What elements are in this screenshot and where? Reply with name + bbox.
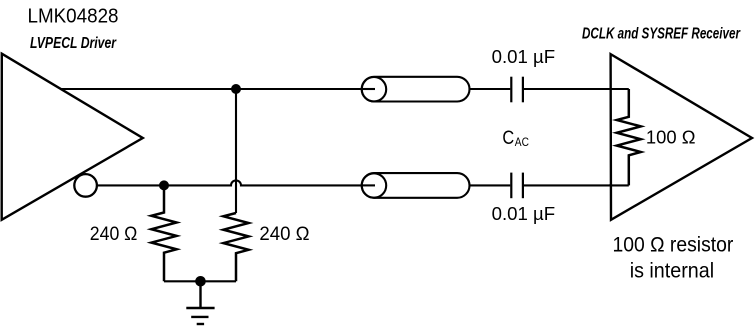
transmission line TL2 (bottom coax) — [362, 173, 470, 198]
wire: bottom input stub inside receiver — [609, 184, 629, 186]
wire: TL1 to capacitor C1 — [470, 88, 511, 90]
svg-text:240 Ω: 240 Ω — [90, 223, 138, 245]
junction dot at ground tie node — [195, 276, 206, 287]
wire: stub into TL1 left-end circle — [362, 88, 375, 90]
svg-text:DCLK and SYSREF Receiver: DCLK and SYSREF Receiver — [582, 25, 741, 42]
wire: driver inverted output to transmission line TL2 (bottom), with hop over vertical wire at x=236 — [98, 180, 375, 185]
resistor R2 240 ohm (right) — [223, 213, 248, 281]
svg-text:AC: AC — [515, 135, 529, 149]
svg-text:C: C — [502, 128, 514, 149]
svg-text:100 Ω: 100 Ω — [646, 127, 696, 148]
wire: capacitor C2 to receiver (bottom input) — [524, 184, 630, 186]
wire: driver true output to transmission line TL1 (top) — [62, 88, 375, 90]
receiver U2 (DCLK and SYSREF receiver triangle) — [611, 54, 752, 220]
resistor R3 100 ohm (internal termination) — [617, 89, 641, 185]
wire: capacitor C1 to receiver (top input) — [524, 88, 630, 90]
resistor R1 240 ohm (left) — [151, 185, 176, 281]
svg-text:LVPECL Driver: LVPECL Driver — [30, 35, 117, 52]
wire: bottom tie between R1 and R2 — [164, 280, 236, 282]
inversion bubble on driver inverted output — [74, 174, 97, 197]
capacitor C2 0.01 uF (bottom) — [511, 173, 523, 199]
wire: stub into TL2 left-end circle — [362, 184, 375, 186]
svg-text:0.01 µF: 0.01 µF — [492, 47, 556, 67]
wire: TL2 to capacitor C2 — [470, 184, 511, 186]
svg-text:LMK04828: LMK04828 — [28, 5, 119, 27]
driver U1 (LVPECL driver triangle) — [2, 54, 143, 220]
svg-text:is internal: is internal — [630, 260, 714, 283]
transmission line TL1 (top coax) — [362, 77, 470, 102]
wire: vertical from top output node down to resistor R2 (crosses bottom wire, no connection) — [235, 89, 237, 213]
junction dot on bottom output (node to R1) — [159, 180, 169, 190]
wire: top input stub inside receiver — [609, 88, 629, 90]
svg-text:100 Ω resistor: 100 Ω resistor — [613, 234, 734, 257]
label CAC (AC coupling cap name) — [502, 128, 529, 149]
junction dot on top output (node to R2) — [231, 84, 241, 94]
svg-text:0.01 µF: 0.01 µF — [492, 204, 556, 224]
ground — [186, 281, 214, 324]
capacitor C1 0.01 uF (top) — [511, 77, 523, 103]
svg-text:240 Ω: 240 Ω — [259, 223, 309, 245]
